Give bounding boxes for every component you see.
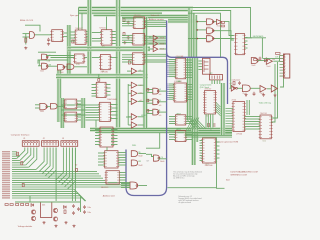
- svg-text:Address counter: Address counter: [149, 18, 164, 21]
- svg-text:PIXEL: PIXEL: [132, 145, 136, 147]
- svg-text:DUCKY@ALAMAGORDO.COM: DUCKY@ALAMAGORDO.COM: [231, 171, 258, 174]
- wire vertical rail x192: [191, 58, 193, 165]
- svg-text:A14: A14: [226, 178, 229, 181]
- wire doubler top rail: [15, 201, 80, 203]
- wire band to U11 pins: [122, 18, 134, 20]
- wire divider to band: [63, 32, 68, 34]
- wire vertical rail x84: [83, 98, 85, 128]
- IC U23: [105, 151, 118, 168]
- wire bus to U15 pins: [169, 83, 174, 85]
- connector J2: [42, 141, 59, 147]
- wire vertical rail x116: [116, 0, 118, 129]
- wire header pin drops and diagonals: [17, 148, 76, 190]
- svg-text:74HC161: 74HC161: [99, 27, 106, 29]
- capacitor C11: [83, 205, 86, 209]
- wire header power drop 3: [74, 148, 76, 202]
- gate G6: [51, 103, 58, 109]
- wire divider to band 2: [63, 36, 68, 38]
- svg-text:74x00: 74x00: [251, 65, 255, 67]
- IC U5: [100, 55, 110, 70]
- wire vertical rail x70: [69, 25, 71, 75]
- ground doubler 1: [42, 221, 45, 224]
- resistor R12: [21, 204, 24, 206]
- nand gate N2: [206, 28, 213, 34]
- wire U19 right stubs: [216, 141, 220, 143]
- svg-text:IC11: IC11: [206, 164, 209, 166]
- svg-text:74x00: 74x00: [206, 42, 210, 44]
- wire x247 pair down: [246, 100, 248, 115]
- gate CH2: [243, 85, 251, 92]
- buffer M5: [131, 122, 137, 128]
- wire nand1 in: [197, 21, 207, 23]
- resistor R5 top right: [221, 25, 224, 27]
- resistor R2 cluster: [123, 19, 125, 22]
- svg-text:74x04: 74x04: [266, 66, 270, 68]
- svg-text:x14: x14: [230, 83, 233, 85]
- wire U22 bottom to U23: [106, 147, 108, 151]
- wire row y57 to x118 band: [110, 57, 117, 59]
- wire counter1 outputs: [145, 20, 167, 22]
- svg-text:x00: x00: [159, 94, 162, 96]
- wire G7 in2: [139, 153, 147, 155]
- ground CH3: [262, 94, 265, 97]
- IC U21 video shift register: [260, 115, 271, 139]
- capacitor U13 side part: [128, 61, 130, 64]
- buffer M3: [131, 98, 137, 104]
- svg-text:x04: x04: [139, 100, 142, 102]
- wire K2 drops: [211, 80, 213, 84]
- svg-text:2x: 2x: [210, 130, 212, 132]
- parts crystal pair: [208, 124, 210, 127]
- wire U14 right stubs: [186, 59, 192, 61]
- wire nand2 in: [197, 29, 207, 31]
- wire M input vertical: [127, 84, 129, 125]
- svg-text:Sync gen: Sync gen: [70, 15, 80, 17]
- IC U9: [65, 99, 77, 109]
- wire rail y130: [90, 129, 232, 131]
- wire V2 in2: [147, 102, 153, 104]
- IC U1 clock divider: [52, 30, 63, 42]
- wire G2 feedback vertical: [38, 60, 40, 66]
- svg-text:10k: 10k: [272, 59, 275, 61]
- wire vertical rail x60: [59, 70, 61, 122]
- wire M0 out: [138, 70, 144, 72]
- wire vertical x216 down: [217, 137, 225, 188]
- wire G5-G6: [47, 106, 51, 108]
- resistor R15 small: [76, 169, 78, 172]
- wire SV1 bottom drop: [280, 78, 284, 87]
- wire U19 left stubs: [200, 140, 203, 142]
- wire top rail to x230: [193, 11, 231, 61]
- svg-text:Video ctrl: Video ctrl: [151, 14, 160, 17]
- wire V2 in: [147, 99, 153, 101]
- wire vertical rail x88: [87, 0, 89, 76]
- node input dot 3: [197, 38, 199, 40]
- inverter T3: [153, 47, 158, 52]
- svg-text:27C64: 27C64: [236, 134, 242, 136]
- wire M0 in: [127, 70, 131, 72]
- wire interface rails: [12, 152, 130, 201]
- wire U10 right: [77, 113, 81, 115]
- gate G1 top: [42, 54, 48, 60]
- capacitor C3: [127, 36, 130, 40]
- svg-text:74x04: 74x04: [217, 26, 221, 28]
- gate G5 nand: [40, 103, 47, 109]
- wire doubler right vertical: [80, 196, 82, 212]
- wire vertical rail x58: [57, 70, 59, 122]
- ground R3: [123, 41, 126, 44]
- wire vertical ROM feed 2: [223, 83, 225, 135]
- svg-text:74x00: 74x00: [206, 34, 210, 36]
- wire gate G1 out: [46, 55, 75, 57]
- wire y188 to x224: [168, 187, 217, 189]
- diagonal fan into U18: [188, 120, 207, 129]
- ground CH4: [273, 94, 276, 97]
- connector J3: [61, 141, 78, 147]
- svg-text:27C64: 27C64: [232, 100, 237, 102]
- IC U17: [175, 131, 185, 142]
- wire right staircase 2: [190, 10, 192, 57]
- svg-text:74x32: 74x32: [138, 156, 142, 158]
- buffer R2: [266, 58, 272, 64]
- svg-text:74x04: 74x04: [160, 49, 164, 51]
- wire SV1 stub wires: [280, 56, 284, 76]
- wire header power drops: [55, 148, 57, 202]
- svg-text:74x04: 74x04: [160, 43, 164, 45]
- buffer N1b: [217, 19, 223, 24]
- wire U23 left rows: [98, 152, 105, 154]
- capacitor C5: [259, 57, 262, 61]
- svg-text:74x00: 74x00: [40, 111, 44, 113]
- svg-text:74x00: 74x00: [160, 161, 164, 163]
- svg-text:WE: WE: [49, 64, 51, 66]
- svg-text:IC9: IC9: [206, 115, 209, 117]
- svg-text:x00: x00: [159, 105, 162, 107]
- resistor V1 part: [147, 89, 149, 92]
- wire nand1 to buffer: [214, 21, 217, 23]
- svg-text:(c) 1998 N. Eco: (c) 1998 N. Eco: [173, 178, 184, 180]
- wire loop frame: [146, 133, 160, 148]
- resistor R6: [276, 53, 281, 55]
- diode D1: [265, 59, 268, 62]
- label rail pin names: [2, 151, 10, 152]
- svg-text:74HC573: 74HC573: [101, 187, 109, 189]
- diagonal fan U18 to ROM band: [216, 102, 221, 116]
- gate M0: [131, 68, 136, 74]
- IC U8 latch: [100, 102, 111, 121]
- wire keyboard to SV1: [262, 57, 279, 59]
- wire gate B link: [65, 66, 67, 68]
- wire V2 out: [159, 101, 166, 103]
- capacitor C7: [253, 92, 256, 96]
- buffer M4: [131, 114, 137, 120]
- wire G6 out: [57, 105, 65, 107]
- IC U11 address counter 1: [134, 17, 145, 29]
- part above U6: [98, 79, 100, 82]
- wire crystal left 2: [23, 36, 30, 38]
- gate V3 nand: [153, 109, 159, 115]
- wire U22 left stubs: [95, 129, 100, 131]
- ground CH2: [244, 94, 247, 97]
- wire L3 out: [138, 185, 147, 187]
- connector SV1 keyboard: [284, 54, 290, 78]
- wire G1 top rail: [38, 51, 56, 53]
- connector J1: [22, 141, 39, 147]
- transistor Q5: [53, 217, 57, 221]
- gate L1: [131, 151, 137, 157]
- wire chain 3: [267, 88, 271, 90]
- capacitor C9: [72, 211, 75, 215]
- wire band x68 to gate A: [38, 60, 69, 64]
- wire U6 top link: [98, 74, 100, 79]
- wire G7 in: [146, 154, 154, 156]
- wire G7 out: [159, 158, 167, 160]
- IC U18 video RAM: [205, 91, 216, 115]
- wire U6 stubs left: [92, 84, 97, 86]
- wire crystal vertical: [25, 34, 27, 45]
- resistor R18 near divider: [72, 40, 74, 43]
- IC U24 address latch: [106, 171, 119, 184]
- wire rail y50: [68, 49, 151, 51]
- wire U4 out rows: [112, 31, 116, 33]
- svg-text:KEYBOARD: KEYBOARD: [253, 35, 264, 38]
- wire V1 in2: [147, 92, 153, 94]
- wire L3 inputs: [121, 183, 130, 185]
- wire keyboard feed: [246, 37, 266, 39]
- gate CH3: [260, 86, 266, 93]
- svg-text:Voltage doubler: Voltage doubler: [18, 225, 33, 228]
- wire nand2 out: [214, 31, 234, 40]
- IC U22: [100, 127, 113, 147]
- gate CH1: [231, 86, 235, 92]
- svg-text:IC5: IC5: [102, 46, 105, 48]
- wire rail y77: [56, 76, 148, 78]
- svg-text:74HC157: 74HC157: [205, 89, 212, 91]
- wire U21 right out2: [271, 64, 275, 122]
- IC U15 RAM lower: [174, 83, 186, 102]
- wire buffer out to U7: [224, 22, 234, 36]
- IC U12 address counter 2: [133, 33, 145, 45]
- wire U20-U21 rows: [245, 116, 261, 118]
- IC U16: [175, 115, 185, 125]
- IC U6 ripple counter: [96, 82, 106, 97]
- wire V1 out: [159, 90, 166, 92]
- capacitor C6: [238, 81, 241, 85]
- wire oscillator input top: [25, 25, 40, 31]
- connector K2: [210, 75, 223, 80]
- gate G2 and: [42, 63, 48, 69]
- wire M inputs: [128, 84, 131, 86]
- wire band to U12 pins: [122, 34, 133, 36]
- gate CH4: [271, 85, 277, 92]
- svg-text:555: 555: [42, 205, 45, 207]
- IC U19: [203, 138, 216, 163]
- svg-text:74x14: 74x14: [243, 93, 247, 95]
- wire row y57 right: [92, 57, 101, 59]
- wire top rail 5: [122, 16, 188, 18]
- wire U24 right stubs: [119, 172, 126, 174]
- nand gate N1: [206, 19, 213, 25]
- wire gate B out: [74, 66, 87, 68]
- wire top rail 2: [79, 9, 194, 11]
- gate L3 in bus loop: [130, 182, 138, 189]
- wire U23 right stubs: [118, 152, 126, 154]
- wire U4 top feed: [106, 15, 108, 29]
- resistor R16 edge: [5, 204, 8, 206]
- ground doubler 3: [64, 221, 67, 224]
- wire fan merge top: [95, 120, 97, 128]
- inverter gate IC1A: [30, 32, 35, 39]
- IC U14 RAM upper: [176, 58, 186, 79]
- diagonal fan band down-left: [186, 118, 199, 132]
- resistor V2 part: [147, 99, 149, 102]
- capacitor C10: [77, 207, 80, 211]
- svg-text:74x04: 74x04: [160, 38, 164, 40]
- wire top rail 3: [79, 12, 163, 14]
- gate G7 mid: [154, 155, 160, 161]
- svg-text:74HC165: 74HC165: [260, 113, 267, 115]
- wire U6 right stubs: [106, 84, 111, 86]
- ground doubler 4: [72, 225, 75, 228]
- gate G4: [67, 64, 74, 70]
- wire rail y47: [68, 46, 151, 48]
- wire chain 0: [230, 87, 232, 89]
- transistor Q2: [31, 210, 35, 214]
- capacitor C8: [72, 204, 75, 208]
- IC U2 flip-flop: [75, 54, 85, 63]
- wire inverter column in/out: [149, 37, 154, 39]
- wire right staircase 4: [195, 15, 197, 57]
- ground C1: [47, 43, 50, 46]
- inverter T1: [153, 35, 158, 40]
- svg-text:x04: x04: [139, 93, 142, 95]
- wire vertical rail x190: [189, 58, 191, 120]
- resistor V3 part: [147, 110, 149, 113]
- wire U8 rows from band: [86, 104, 100, 106]
- wire U8 rows left long: [61, 104, 86, 106]
- connector K1: [203, 58, 211, 74]
- wire R1-R2: [258, 60, 267, 62]
- resistor R13: [26, 204, 29, 206]
- svg-text:for non-commercial purposes on: for non-commercial purposes only.: [173, 174, 198, 176]
- wire row y57 left: [51, 57, 75, 59]
- wire G5 in 1: [35, 104, 40, 106]
- wire top rail to x250: [193, 8, 251, 38]
- wire U17 stubs: [169, 131, 175, 133]
- wire vertical rail x146: [145, 17, 147, 58]
- wire vertical rail x144: [143, 17, 145, 58]
- resistor R14: [64, 210, 66, 213]
- wire V3 out: [159, 111, 166, 113]
- resistor R3: [123, 33, 125, 36]
- svg-text:74x00: 74x00: [206, 25, 210, 27]
- wire U18 bottom drops: [205, 114, 207, 128]
- wire oscillator gate to divider: [34, 34, 52, 36]
- svg-text:Computer Interface: Computer Interface: [11, 133, 31, 136]
- ground doubler 2: [54, 225, 57, 228]
- svg-text:74HC161: 74HC161: [134, 15, 141, 17]
- wire vertical rail x197: [196, 58, 198, 142]
- wire U9 right: [77, 100, 81, 102]
- svg-text:IC2B: IC2B: [76, 64, 80, 66]
- wire band to U13 pins: [122, 54, 133, 56]
- resistor R17 edge: [10, 204, 13, 206]
- resistor R11: [16, 204, 19, 206]
- wire bus to U14 pins: [169, 59, 176, 61]
- bus main vertical with bottom loop: [126, 21, 167, 196]
- svg-text:WWW.NECO.COM: WWW.NECO.COM: [231, 175, 248, 177]
- resistor R9 rails: [21, 162, 23, 165]
- gate V2 nand: [153, 99, 159, 105]
- svg-text:74x00: 74x00: [40, 70, 44, 72]
- wire vertical rail x119: [118, 0, 120, 129]
- wire V1 in: [147, 89, 153, 91]
- svg-text:74x04: 74x04: [260, 93, 264, 95]
- crystal Q1: [25, 38, 27, 42]
- svg-text:74HC4040: 74HC4040: [107, 99, 117, 101]
- wire U15 right stubs: [187, 84, 193, 86]
- wire rail y74: [56, 74, 148, 76]
- wire rail y22: [168, 21, 196, 23]
- gate R1 nand: [251, 58, 258, 64]
- parts row top right: [254, 59, 257, 61]
- IC U4 counter: [101, 30, 112, 45]
- wire top rail 4: [94, 14, 189, 16]
- wire counter2 outputs: [145, 35, 167, 37]
- node input dot 1: [197, 21, 199, 23]
- wire U7 to keyboard: [246, 37, 252, 39]
- transistor Q3: [31, 216, 35, 220]
- wire rails into doubler: [29, 196, 31, 202]
- svg-text:VIDEO: VIDEO: [141, 115, 147, 117]
- svg-text:Video shift reg: Video shift reg: [259, 101, 271, 104]
- ground R7: [232, 87, 235, 90]
- wire chain feed vertical: [230, 60, 232, 88]
- transistor Q4: [53, 208, 57, 212]
- wire chain 1: [238, 87, 243, 89]
- wire right staircase 3: [193, 13, 195, 57]
- bus branch y57 to x227: [167, 53, 228, 105]
- wire M4 link: [126, 116, 132, 118]
- buffer M2: [131, 90, 137, 96]
- wire header power drop 2: [71, 148, 73, 202]
- svg-text:100n: 100n: [88, 212, 92, 214]
- wire rail y128: [90, 127, 232, 129]
- wire vertical rail x68: [67, 25, 69, 75]
- svg-text:x04: x04: [139, 85, 142, 87]
- wire row y57 mid: [84, 57, 87, 59]
- wire vertical rail x82: [81, 98, 83, 128]
- wire U3-U4: [86, 31, 88, 33]
- nand gate N3: [206, 36, 213, 42]
- wire top rail 1: [79, 6, 194, 8]
- diode D2: [31, 204, 34, 207]
- wire gate A out: [48, 65, 57, 67]
- gate G3: [58, 65, 65, 71]
- wire G2 in: [38, 65, 42, 67]
- capacitor C12: [83, 210, 86, 214]
- wire vertical rail x146 low: [145, 58, 147, 128]
- resistor R8 rails: [17, 152, 19, 155]
- wire counter3 outputs: [144, 53, 167, 55]
- wire U16 stubs: [169, 116, 175, 118]
- wire K1 stubs: [198, 60, 202, 62]
- svg-text:100n: 100n: [88, 207, 92, 209]
- wire V3 in2: [147, 113, 153, 115]
- svg-text:74x04: 74x04: [59, 72, 63, 74]
- svg-text:Address latch: Address latch: [103, 194, 115, 197]
- wire nand3 in: [188, 38, 206, 40]
